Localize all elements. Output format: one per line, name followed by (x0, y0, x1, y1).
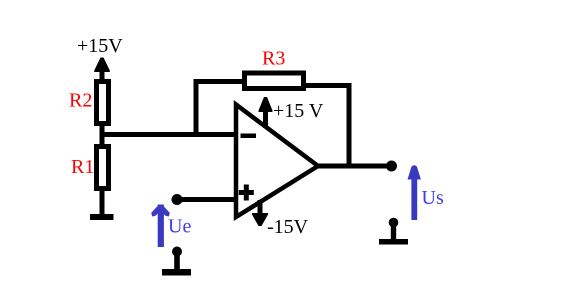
resistor R3 (245, 73, 304, 89)
svg-text:R2: R2 (69, 90, 92, 112)
label R1 (71, 156, 94, 178)
ground below R1 (90, 189, 114, 220)
plus input sign (239, 185, 254, 201)
wire output (316, 164, 392, 169)
svg-text:Ue: Ue (168, 216, 191, 238)
supply label +15 V (273, 100, 324, 122)
ground below Us (379, 218, 408, 245)
supply arrow +15V (94, 58, 110, 84)
node Ue input (172, 194, 183, 205)
wire feedback right vertical (347, 83, 352, 168)
op-amp U1 (236, 105, 318, 218)
wire noninverting input (177, 197, 237, 202)
svg-text:R1: R1 (71, 156, 94, 178)
wire feedback top right (303, 83, 351, 88)
wire feedback left vertical (194, 79, 199, 136)
label Ue (168, 216, 191, 238)
wire feedback top left (194, 79, 245, 84)
arrow Us (408, 165, 421, 220)
label R2 (69, 90, 92, 112)
supply arrow -15V (op-amp bottom) (252, 200, 268, 226)
ground below Ue (162, 247, 191, 276)
svg-text:Us: Us (422, 187, 444, 209)
resistor R1 (97, 147, 109, 189)
supply label -15V (267, 216, 309, 238)
wire R2 to R1 (100, 123, 105, 146)
svg-text:+15 V: +15 V (273, 100, 324, 122)
minus input sign (241, 134, 257, 139)
svg-text:+15V: +15V (77, 35, 123, 57)
svg-text:R3: R3 (262, 48, 285, 70)
label Us (422, 187, 444, 209)
label R3 (262, 48, 285, 70)
wire inverting input (100, 132, 238, 137)
svg-text:-15V: -15V (267, 216, 309, 238)
supply arrow +15 V (op-amp top) (259, 97, 273, 128)
resistor R2 (97, 82, 109, 124)
supply label +15V (77, 35, 123, 57)
node output (386, 161, 397, 172)
arrow Ue (151, 205, 170, 248)
